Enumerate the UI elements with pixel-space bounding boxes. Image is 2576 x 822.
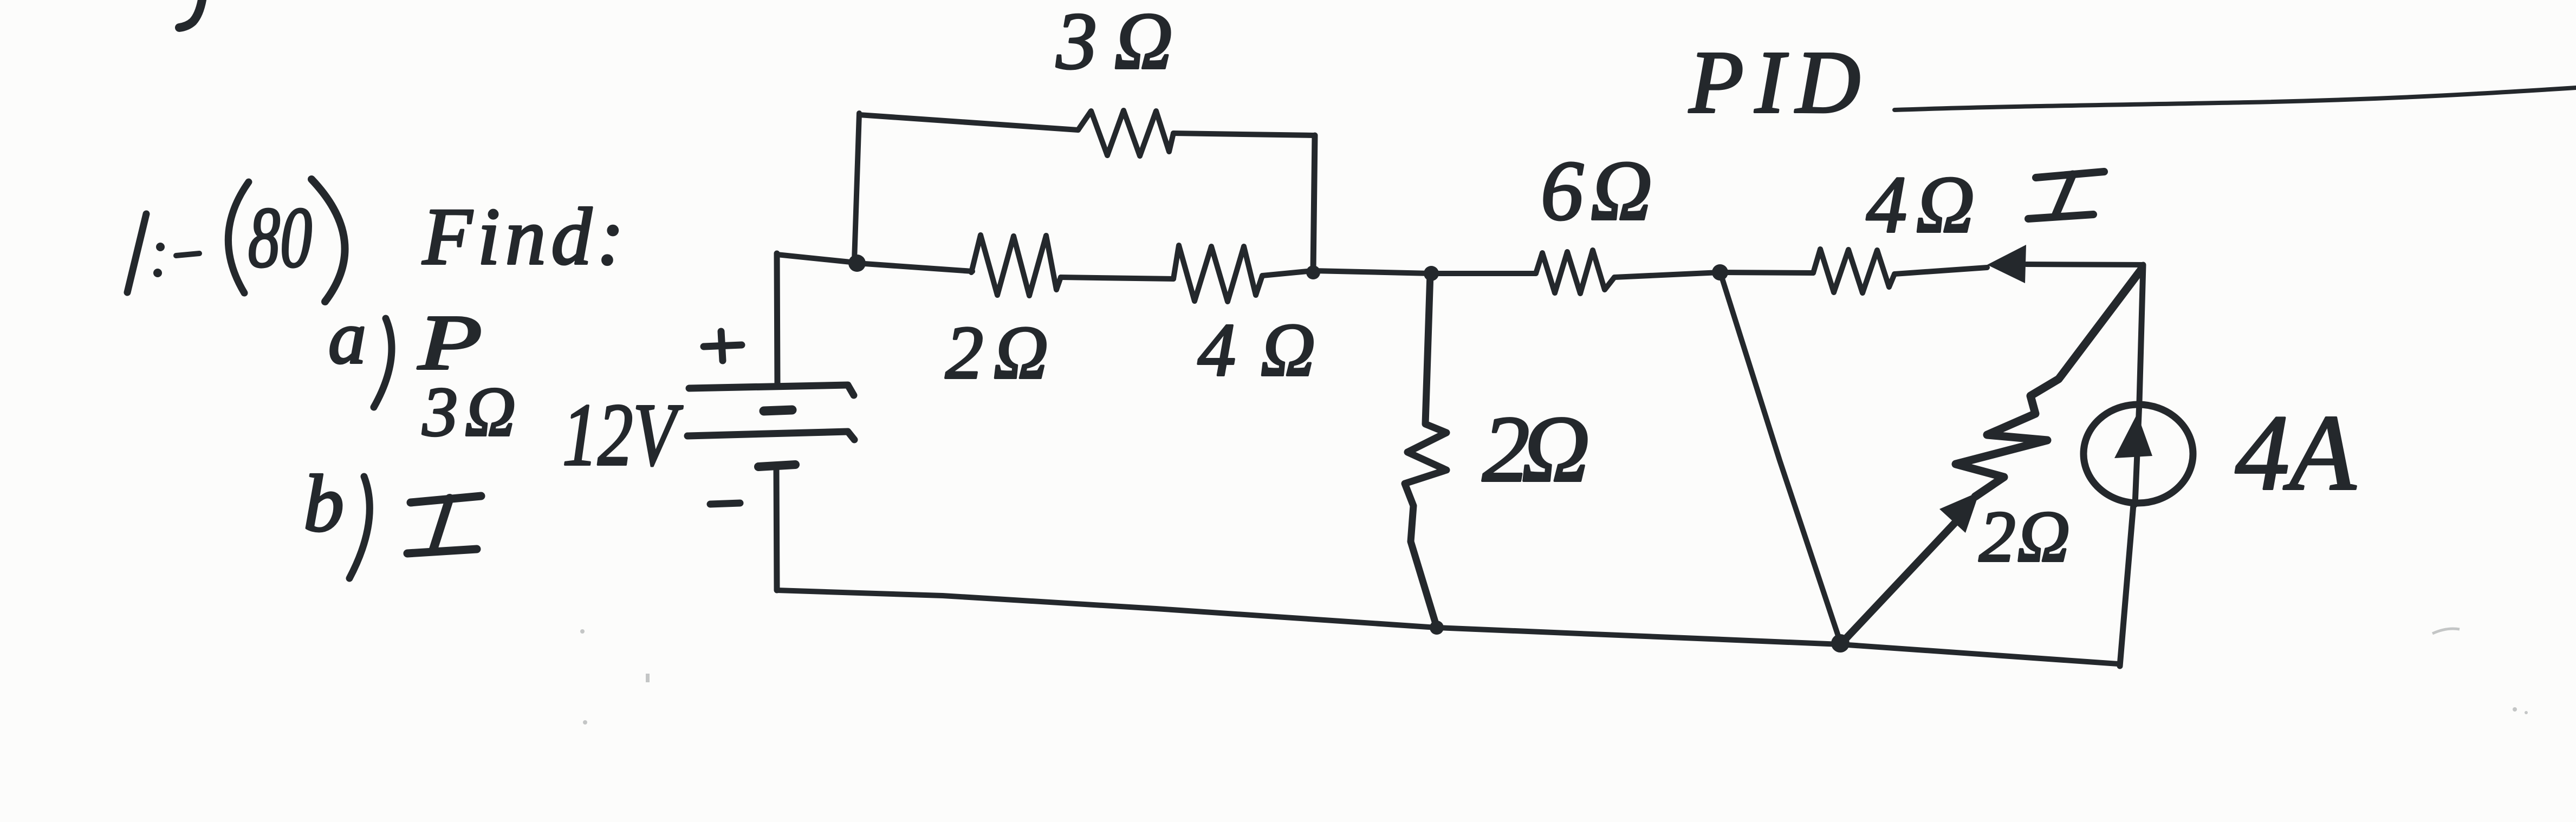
svg-text:2Ω: 2Ω [1482, 396, 1590, 501]
svg-text:80: 80 [248, 189, 312, 285]
svg-text:b: b [303, 459, 344, 549]
svg-text:3Ω: 3Ω [1056, 0, 1173, 86]
svg-text:Find:: Find: [422, 192, 624, 282]
svg-text:2Ω: 2Ω [1979, 497, 2070, 577]
svg-text:PID: PID [1689, 32, 1860, 132]
svg-text:3Ω: 3Ω [422, 373, 516, 451]
svg-text:a: a [328, 296, 366, 380]
svg-text:4Ω: 4Ω [1866, 160, 1975, 250]
svg-text:6Ω: 6Ω [1541, 143, 1652, 238]
svg-text:4A: 4A [2235, 393, 2356, 513]
svg-text:12V: 12V [562, 385, 683, 484]
svg-text:4Ω: 4Ω [1198, 308, 1315, 392]
svg-text:2Ω: 2Ω [945, 311, 1048, 395]
